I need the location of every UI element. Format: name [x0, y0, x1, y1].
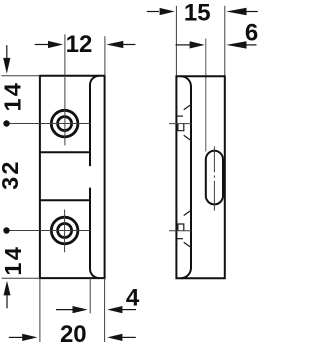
hole 2 countersink outer circle [51, 217, 78, 244]
dim 4 / 20: right extension line [104, 278, 106, 342]
side view slot capsule [206, 151, 223, 205]
dim 6: left extension line (to slot tangent) [205, 39, 207, 152]
side view hole 1 hidden countersink lower diagonal [184, 135, 192, 140]
dim 20: left arrow [9, 336, 23, 338]
hole 1 center line end dot [3, 120, 9, 126]
front view slot lower edge line [40, 199, 91, 201]
side view hole 2 hidden countersink lower diagonal [184, 242, 192, 247]
side view hole 2 center line [169, 230, 192, 232]
dim 14 top: down arrow [6, 45, 8, 59]
dim 20: right arrow [107, 334, 122, 341]
side view hole 1 center line [169, 123, 192, 125]
dim 12: right arrow [106, 41, 123, 48]
side view outer outline [176, 76, 224, 278]
hole 1 countersink outer circle [51, 110, 78, 137]
dim 14 bottom: up arrow [4, 281, 11, 296]
dim 12: left arrow [35, 44, 48, 46]
dim 6: left arrow [176, 44, 191, 46]
side view hole 2 hidden bore tick [177, 238, 183, 240]
svg-text:32: 32 [0, 159, 23, 190]
svg-text:4: 4 [126, 284, 140, 311]
dim 20: left extension line [39, 278, 41, 342]
side view inner contour with top and bottom fillets [181, 76, 191, 278]
svg-text:14: 14 [0, 245, 26, 276]
dim 15: right arrow [226, 8, 246, 15]
front view slot upper edge line [40, 151, 91, 153]
bottom edge extension line to left [2, 277, 40, 279]
hole 1 horizontal center line [8, 123, 90, 125]
top edge extension line to left [2, 75, 40, 77]
hole 2 vertical center line [64, 210, 66, 253]
side view hole 2 hidden bore channel [178, 224, 184, 231]
svg-text:20: 20 [60, 321, 87, 345]
dim 15: left extension line [175, 6, 177, 76]
dim 4: left extension line [89, 278, 91, 313]
hole 1 bore inner circle [58, 117, 72, 131]
side view hole 1 hidden bore channel [178, 124, 184, 131]
svg-text:6: 6 [245, 19, 258, 46]
dim 4: left arrow [56, 309, 73, 311]
front view flange fold line upper segment with top fillet [90, 76, 99, 166]
slot vertical center line [213, 146, 215, 210]
svg-text:14: 14 [0, 81, 25, 112]
svg-text:12: 12 [66, 31, 93, 58]
dim 15: left arrow [147, 11, 159, 13]
hole 2 horizontal center line [8, 230, 90, 232]
front view flange fold line lower segment with bottom fillet [90, 188, 99, 279]
svg-text:15: 15 [184, 0, 211, 26]
hole 2 bore inner circle [58, 224, 72, 238]
side view hole 1 hidden countersink upper diagonal [184, 104, 192, 109]
front view outer plate outline [40, 76, 105, 278]
side view hole 1 hidden bore tick [177, 115, 183, 117]
side view hole 2 hidden countersink upper diagonal [184, 210, 192, 215]
hole 2 center line end dot [3, 227, 9, 233]
dim 15 / 6: right extension line [224, 6, 226, 76]
dim 4: right arrow [107, 306, 122, 313]
hole 1 vertical center line (also ext. for dim 12) [64, 34, 66, 145]
dim 6: right arrow [226, 41, 246, 48]
dim 12: right extension line [104, 36, 106, 75]
